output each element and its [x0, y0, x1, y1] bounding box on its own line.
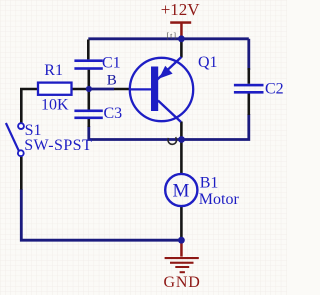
svg-text:M: M	[173, 181, 190, 202]
wire transistor emitter pin (to +12V)	[180, 39, 183, 58]
transistor Q1 (PNP)	[130, 57, 193, 122]
svg-text:C1: C1	[102, 55, 121, 72]
wire base node to transistor	[89, 88, 114, 91]
wire C2 bottom pin	[248, 93, 251, 115]
svg-text:Motor: Motor	[199, 191, 240, 208]
wire R1 right pin	[72, 88, 89, 91]
wire motor top pin	[180, 140, 183, 175]
motor B1	[165, 174, 197, 206]
wire R1 left to switch top	[21, 89, 38, 123]
wire C2 top pin	[248, 68, 251, 84]
pin label [t] near top junction	[167, 32, 178, 41]
wire base pin black	[114, 88, 130, 91]
value 10K	[41, 96, 69, 113]
wire mid rail left (C3 to junction)	[89, 126, 180, 140]
switch S1 SW-SPST	[6, 123, 24, 156]
ground GND	[164, 240, 201, 291]
svg-text:C2: C2	[265, 80, 284, 97]
svg-text:GND: GND	[164, 274, 201, 291]
svg-text:Q1: Q1	[198, 54, 218, 71]
node junction bottom (motor / bottom rail / GND)	[178, 237, 185, 244]
svg-text:B: B	[107, 72, 117, 88]
wire C1 top pin	[87, 40, 90, 60]
svg-text:+12V: +12V	[161, 0, 201, 19]
wire right column C2 upper	[247, 39, 250, 70]
label B1	[200, 175, 219, 192]
svg-text:C3: C3	[104, 105, 123, 122]
label Q1	[198, 54, 218, 71]
pin mark near mid junction	[168, 137, 177, 144]
node junction mid (collector / C2 / C3 / motor)	[178, 136, 185, 143]
wire C3 bottom pin	[88, 119, 91, 127]
resistor R1	[38, 83, 72, 95]
label node B	[107, 72, 117, 88]
wire C1 bottom pin	[88, 70, 91, 89]
capacitor C2	[234, 84, 264, 94]
svg-text:10K: 10K	[41, 96, 69, 113]
label C1	[102, 55, 121, 72]
wire C3 top pin	[88, 89, 91, 110]
wire right column C2 lower	[184, 114, 249, 140]
node junction top (+12V rail / Q1 emitter)	[178, 35, 185, 42]
svg-text:B1: B1	[200, 175, 219, 192]
svg-text:R1: R1	[44, 62, 63, 79]
power +12V	[161, 0, 201, 40]
node B junction dot	[86, 86, 92, 92]
capacitor C1	[74, 59, 102, 69]
label C3	[104, 105, 123, 122]
label Motor	[199, 191, 240, 208]
wire top +12V rail	[88, 37, 249, 40]
svg-text:SW-SPST: SW-SPST	[24, 137, 92, 154]
label S1	[25, 122, 42, 139]
label R1	[44, 62, 63, 79]
label SW-SPST	[24, 137, 92, 154]
label C2	[265, 80, 284, 97]
wire transistor collector pin (to mid junction)	[180, 122, 183, 140]
wire bottom rail	[21, 189, 181, 240]
wire switch bottom pin	[20, 156, 23, 190]
svg-text:[t]: [t]	[167, 32, 178, 41]
wire motor bottom pin	[180, 206, 183, 240]
capacitor C3	[74, 110, 102, 120]
